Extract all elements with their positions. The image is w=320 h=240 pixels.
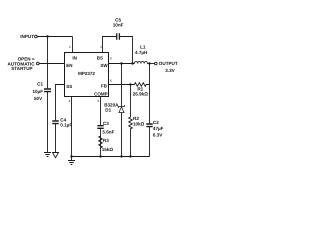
node GND rail junction bbox=[70, 155, 72, 157]
svg-text:MP2372: MP2372 bbox=[78, 71, 95, 76]
svg-text:3.3V: 3.3V bbox=[165, 68, 175, 73]
node SW/C5 junction bbox=[131, 62, 133, 64]
ground under C4 (chassis triangle) bbox=[53, 153, 59, 158]
pin 6 wire COMP bbox=[98, 97, 101, 157]
ground under C1 bbox=[44, 153, 51, 157]
svg-text:C2: C2 bbox=[153, 120, 159, 125]
svg-text:26.9kΩ: 26.9kΩ bbox=[133, 91, 148, 96]
node R2/rail junction bbox=[129, 155, 131, 157]
svg-text:SS: SS bbox=[66, 84, 72, 89]
pin 4 GND stub bbox=[69, 97, 72, 157]
svg-text:10nF: 10nF bbox=[113, 22, 124, 27]
svg-text:5.6nF: 5.6nF bbox=[102, 130, 114, 135]
IC U1 MP2372 bbox=[65, 53, 109, 97]
svg-text:FB: FB bbox=[101, 83, 108, 88]
svg-text:D1: D1 bbox=[105, 107, 111, 112]
wire INPUT to IN pin bbox=[37, 36, 72, 38]
resistor R3 bbox=[99, 136, 114, 152]
svg-text:L1: L1 bbox=[140, 45, 146, 50]
terminal OPEN bbox=[7, 57, 39, 71]
svg-text:INPUT: INPUT bbox=[20, 34, 34, 39]
svg-text:2: 2 bbox=[69, 45, 71, 49]
capacitor C5 bbox=[113, 17, 124, 39]
terminal OUTPUT bbox=[155, 61, 178, 73]
svg-text:OUTPUT: OUTPUT bbox=[159, 61, 178, 66]
svg-text:IN: IN bbox=[72, 56, 77, 61]
svg-text:C1: C1 bbox=[37, 82, 43, 87]
capacitor C1 bbox=[32, 82, 51, 102]
capacitor C3 bbox=[97, 121, 114, 135]
svg-text:5: 5 bbox=[110, 79, 112, 83]
svg-text:0.1µF: 0.1µF bbox=[60, 122, 72, 127]
ground (IC GND) bbox=[68, 157, 75, 165]
capacitor C4 bbox=[52, 117, 72, 127]
svg-text:COMP: COMP bbox=[94, 91, 108, 96]
svg-text:1: 1 bbox=[100, 45, 102, 49]
node COMP/rail junction bbox=[99, 155, 101, 157]
svg-text:15kΩ: 15kΩ bbox=[102, 147, 114, 152]
bottom rail wire bbox=[72, 156, 150, 158]
resistor R1 bbox=[131, 83, 150, 97]
node D1/rail junction bbox=[120, 155, 122, 157]
wire L1 to OUTPUT bbox=[147, 63, 154, 65]
pin 2 IN stub bbox=[69, 37, 73, 53]
svg-text:6: 6 bbox=[98, 99, 100, 103]
inductor L1 bbox=[134, 45, 148, 64]
svg-text:R2: R2 bbox=[133, 116, 139, 121]
svg-text:BS: BS bbox=[97, 55, 103, 60]
svg-text:3: 3 bbox=[110, 57, 112, 61]
diode D1 B320A (schottky) bbox=[104, 64, 124, 157]
svg-text:EN: EN bbox=[66, 63, 72, 68]
svg-text:10µF: 10µF bbox=[32, 89, 43, 94]
node SW/D1 junction bbox=[120, 62, 122, 64]
svg-text:4: 4 bbox=[69, 99, 71, 103]
pin 3 wire SW bbox=[109, 57, 135, 64]
node output rail junction bbox=[148, 62, 150, 64]
wire C1 branch bbox=[47, 37, 49, 153]
wire EN bbox=[39, 63, 64, 65]
svg-text:R3: R3 bbox=[103, 138, 109, 143]
terminal INPUT bbox=[20, 34, 37, 39]
node FB divider junction bbox=[129, 83, 131, 85]
svg-text:SW: SW bbox=[100, 63, 108, 68]
wire SS to C4 bbox=[56, 85, 65, 153]
svg-text:50V: 50V bbox=[34, 96, 43, 101]
node input/C1 junction bbox=[46, 35, 48, 37]
resistor R2 bbox=[129, 85, 145, 157]
pin 5 wire FB bbox=[109, 79, 131, 85]
svg-text:6.3V: 6.3V bbox=[153, 133, 163, 138]
wire output rail / C2 branch bbox=[149, 64, 151, 157]
svg-text:4.7µH: 4.7µH bbox=[135, 50, 148, 55]
svg-text:47µF: 47µF bbox=[153, 126, 164, 131]
svg-text:10kΩ: 10kΩ bbox=[133, 122, 145, 127]
svg-text:C3: C3 bbox=[103, 121, 109, 126]
svg-text:STARTUP: STARTUP bbox=[11, 66, 32, 71]
capacitor C2 bbox=[146, 120, 163, 138]
pin 1 BS stub and wire to C5 bbox=[100, 37, 132, 64]
